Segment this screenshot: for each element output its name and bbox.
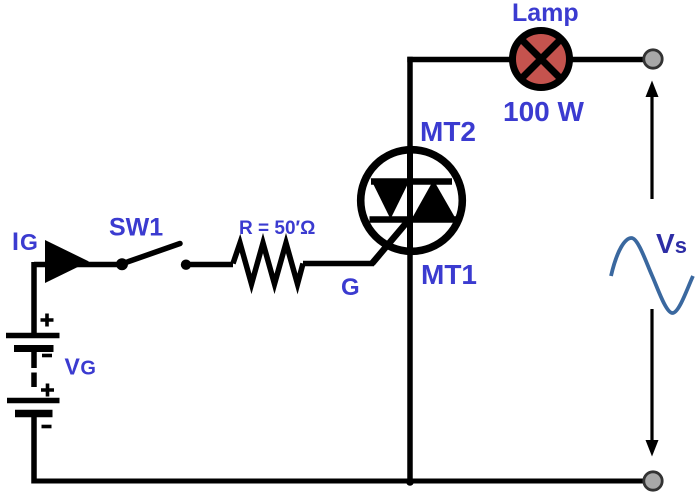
svg-text:MT1: MT1 (421, 259, 477, 290)
svg-text:VG: VG (65, 354, 96, 380)
svg-text:Lamp: Lamp (512, 0, 579, 27)
svg-text:MT2: MT2 (420, 116, 476, 147)
svg-text:Vs: Vs (656, 228, 687, 259)
svg-text:IG: IG (12, 228, 38, 256)
svg-text:100 W: 100 W (503, 96, 584, 127)
svg-text:G: G (341, 274, 360, 301)
svg-text:R = 50′Ω: R = 50′Ω (239, 218, 315, 239)
svg-text:SW1: SW1 (109, 214, 163, 242)
